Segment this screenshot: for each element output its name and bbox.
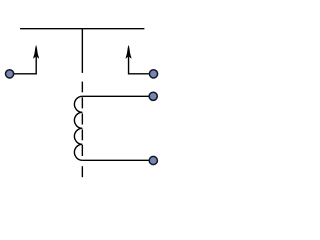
terminal pin: coil top [149, 92, 157, 100]
terminal pin: coil bottom [149, 156, 157, 164]
wiper arrow shaft (right) [128, 57, 130, 75]
wire: coil bottom lead to terminal [82, 159, 148, 161]
wire: top horizontal bus [20, 28, 144, 30]
dashed core line (segment 6, below coil) [81, 166, 83, 177]
wiper arrowhead (left) [33, 45, 39, 59]
wire: center vertical from T-junction [81, 29, 83, 73]
terminal pin: left wiper [6, 70, 14, 78]
wire: coil top lead to terminal [82, 95, 148, 97]
terminal pin: right wiper [149, 70, 157, 78]
wiper arrowhead (right) [126, 45, 132, 59]
dashed core line (segment 2) [81, 97, 83, 108]
dashed core line (segment 3) [81, 113, 83, 124]
dashed core line (segment 5) [81, 145, 83, 156]
dashed core line (segment 1) [81, 82, 83, 93]
inductor coil L1 (4 left-bulging semicircle turns) [74, 96, 82, 160]
wiper arrow shaft (left) [35, 57, 37, 75]
wire: right wiper lead [129, 73, 149, 75]
wire: left wiper lead [14, 73, 36, 75]
dashed core line (segment 4) [81, 129, 83, 140]
